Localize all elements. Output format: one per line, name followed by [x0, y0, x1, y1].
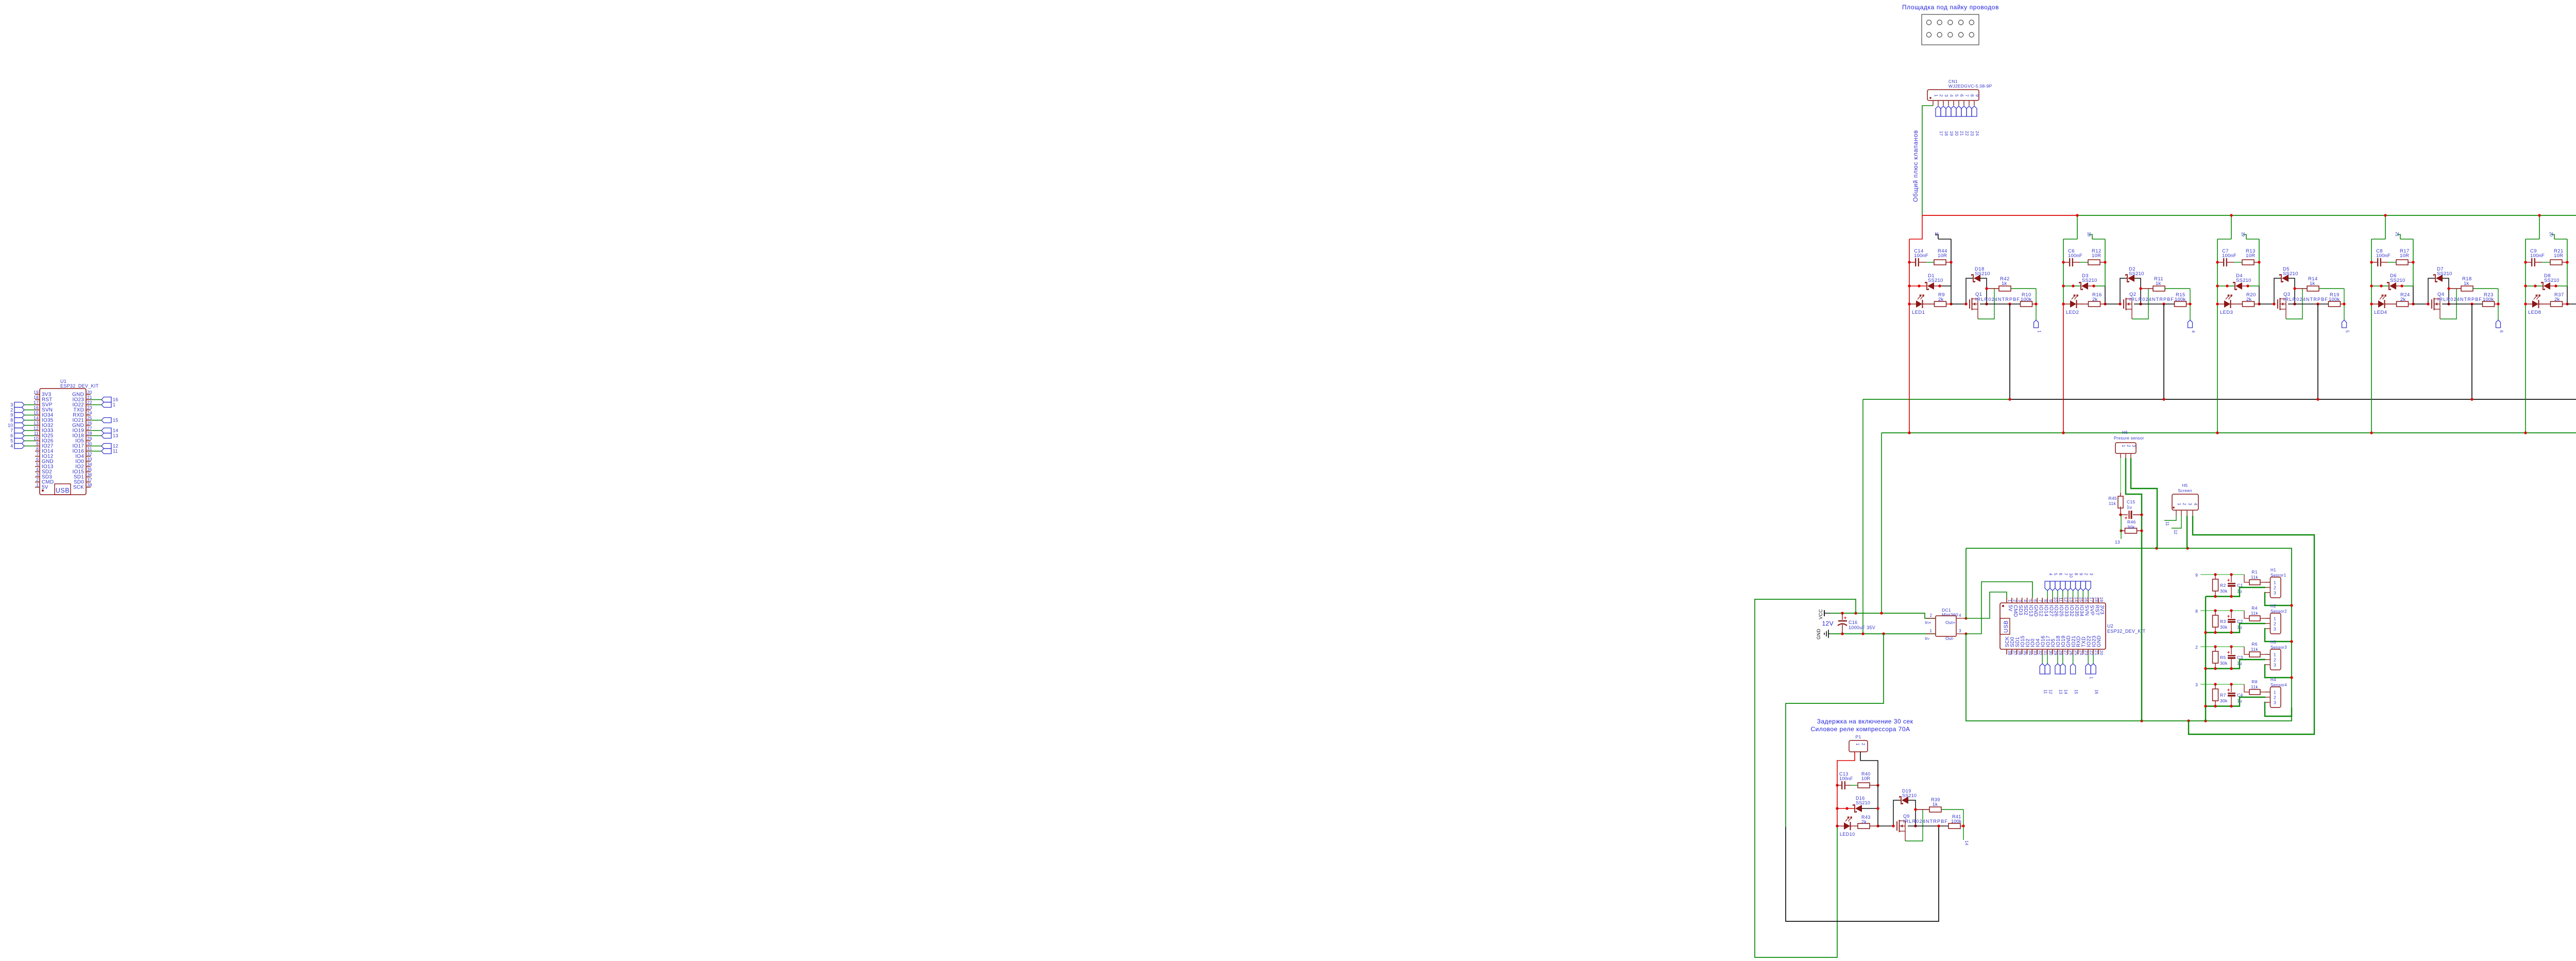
svg-text:100k: 100k: [1951, 819, 1962, 824]
svg-text:1: 1: [2274, 652, 2276, 657]
svg-text:14: 14: [113, 428, 118, 433]
svg-text:SCK: SCK: [73, 485, 84, 491]
svg-text:RST: RST: [2094, 605, 2099, 616]
svg-text:19: 19: [2241, 232, 2245, 237]
svg-text:3: 3: [36, 472, 39, 477]
svg-text:5: 5: [2053, 573, 2058, 576]
svg-text:2: 2: [1930, 613, 1933, 618]
svg-text:8: 8: [2195, 609, 2198, 614]
svg-text:16: 16: [2094, 689, 2098, 694]
svg-text:30k: 30k: [2220, 698, 2228, 703]
svg-text:28: 28: [87, 431, 92, 436]
svg-text:IO14: IO14: [2043, 605, 2048, 617]
svg-text:18: 18: [33, 395, 39, 400]
svg-text:11: 11: [2043, 689, 2047, 694]
svg-text:1: 1: [113, 402, 115, 408]
svg-text:20: 20: [2099, 650, 2104, 655]
svg-text:3V3: 3V3: [2099, 605, 2105, 615]
svg-text:Out-: Out-: [1945, 636, 1954, 641]
svg-text:2: 2: [1939, 94, 1944, 97]
svg-text:ESP32_DEV_KIT: ESP32_DEV_KIT: [60, 383, 99, 389]
svg-text:11k: 11k: [2251, 611, 2258, 616]
svg-text:8: 8: [1970, 94, 1975, 97]
svg-text:30: 30: [87, 441, 92, 446]
svg-text:IRLR024NTRPBF: IRLR024NTRPBF: [2129, 297, 2174, 302]
svg-text:7: 7: [10, 428, 13, 433]
svg-text:2: 2: [2182, 503, 2187, 505]
svg-text:2: 2: [36, 477, 39, 482]
svg-text:10R: 10R: [2400, 253, 2409, 259]
svg-text:1: 1: [2089, 677, 2093, 679]
svg-text:2k: 2k: [2246, 297, 2251, 302]
svg-text:13: 13: [2058, 689, 2063, 694]
svg-text:27: 27: [87, 426, 92, 431]
svg-text:3: 3: [2274, 627, 2276, 632]
svg-text:5: 5: [1954, 94, 1959, 97]
svg-text:6: 6: [10, 433, 13, 439]
svg-text:2k: 2k: [1938, 297, 1943, 302]
svg-text:2k: 2k: [2400, 297, 2405, 302]
svg-text:3: 3: [2131, 445, 2136, 447]
svg-text:100k: 100k: [2021, 297, 2031, 302]
svg-text:15: 15: [113, 418, 118, 423]
svg-text:In+: In+: [1925, 620, 1931, 625]
svg-text:USB: USB: [56, 487, 70, 494]
svg-text:R4: R4: [2251, 605, 2257, 611]
svg-text:29: 29: [87, 436, 92, 441]
svg-text:16: 16: [113, 397, 118, 402]
svg-text:H4: H4: [2270, 678, 2276, 682]
svg-text:12: 12: [2048, 689, 2053, 694]
svg-text:3: 3: [1959, 629, 1961, 633]
svg-text:13: 13: [113, 433, 118, 439]
svg-text:10: 10: [2069, 573, 2073, 578]
svg-text:24: 24: [1975, 131, 1980, 136]
svg-text:12V: 12V: [1822, 620, 1834, 627]
svg-text:11k: 11k: [2251, 575, 2258, 580]
svg-text:20: 20: [87, 390, 92, 395]
svg-text:19: 19: [1949, 131, 1954, 136]
svg-text:2k: 2k: [1861, 819, 1867, 824]
svg-text:37: 37: [87, 477, 92, 482]
svg-text:13: 13: [33, 420, 39, 426]
svg-text:6: 6: [2058, 573, 2063, 576]
svg-text:32: 32: [87, 451, 92, 457]
svg-text:R3: R3: [2220, 619, 2226, 624]
svg-text:H2: H2: [2270, 604, 2276, 609]
svg-text:4: 4: [1959, 613, 1961, 618]
svg-text:20: 20: [1954, 131, 1959, 136]
svg-text:CMD: CMD: [2012, 605, 2018, 617]
svg-text:6: 6: [2499, 330, 2504, 333]
svg-text:3: 3: [2274, 591, 2276, 596]
svg-text:LED8: LED8: [2528, 310, 2541, 315]
svg-text:H6: H6: [2122, 430, 2128, 435]
svg-text:4: 4: [2193, 503, 2198, 505]
svg-text:1: 1: [1934, 94, 1939, 97]
svg-text:9: 9: [1975, 94, 1980, 97]
svg-text:IRLR024NTRPBF: IRLR024NTRPBF: [2283, 297, 2328, 302]
svg-text:100nF: 100nF: [1839, 776, 1853, 781]
svg-text:9: 9: [2195, 572, 2198, 578]
svg-text:12: 12: [33, 426, 39, 431]
svg-text:100nF: 100nF: [2376, 253, 2391, 259]
svg-text:Presure sensor: Presure sensor: [2114, 436, 2144, 441]
svg-text:1: 1: [2274, 580, 2276, 585]
svg-text:21: 21: [2395, 232, 2399, 237]
svg-text:10R: 10R: [2554, 253, 2563, 259]
svg-text:IO34: IO34: [2079, 605, 2084, 617]
svg-text:21: 21: [1959, 131, 1964, 136]
svg-text:2: 2: [10, 408, 13, 413]
svg-text:10: 10: [8, 423, 13, 428]
svg-text:5: 5: [2345, 330, 2350, 333]
svg-text:R5: R5: [2220, 655, 2226, 660]
svg-text:100nF: 100nF: [2068, 253, 2082, 259]
svg-text:IO12: IO12: [2038, 605, 2044, 617]
svg-text:4: 4: [2191, 330, 2196, 333]
svg-text:H3: H3: [2270, 640, 2276, 645]
svg-text:R7: R7: [2220, 693, 2226, 698]
svg-text:7: 7: [1964, 94, 1970, 97]
svg-text:1: 1: [36, 482, 39, 487]
svg-text:USB: USB: [2003, 620, 2009, 633]
svg-text:2: 2: [2274, 621, 2276, 627]
svg-text:R1: R1: [2251, 569, 2257, 575]
svg-text:1k: 1k: [2002, 281, 2007, 286]
svg-text:LED1: LED1: [1912, 310, 1925, 315]
svg-text:6: 6: [1959, 94, 1964, 97]
svg-text:23: 23: [87, 405, 92, 410]
svg-text:R45: R45: [2109, 496, 2117, 501]
svg-text:IRLR024NTRPBF: IRLR024NTRPBF: [1903, 819, 1948, 824]
svg-text:GND: GND: [2096, 635, 2102, 647]
svg-text:LED10: LED10: [1840, 832, 1855, 837]
svg-text:11: 11: [34, 431, 39, 436]
svg-text:19: 19: [2099, 597, 2104, 602]
svg-text:36: 36: [87, 472, 92, 477]
svg-text:Out+: Out+: [1945, 620, 1955, 625]
svg-text:LED3: LED3: [2220, 310, 2233, 315]
svg-text:9: 9: [36, 441, 39, 446]
svg-text:22: 22: [87, 400, 92, 405]
svg-text:33: 33: [87, 457, 92, 462]
svg-text:13: 13: [2115, 539, 2120, 545]
svg-text:34: 34: [87, 462, 92, 467]
svg-text:1k: 1k: [2310, 281, 2315, 286]
svg-text:10: 10: [33, 436, 39, 441]
svg-text:2: 2: [2084, 573, 2089, 576]
svg-text:5V: 5V: [42, 485, 48, 491]
svg-text:38: 38: [87, 482, 92, 487]
svg-text:8: 8: [10, 418, 13, 423]
svg-text:R2: R2: [2220, 583, 2226, 588]
svg-text:14: 14: [33, 415, 39, 420]
svg-text:Силовое реле компрессора 70А: Силовое реле компрессора 70А: [1810, 726, 1910, 733]
svg-text:SS210: SS210: [2236, 278, 2251, 283]
svg-text:15: 15: [33, 410, 39, 415]
svg-text:VCC: VCC: [1818, 609, 1823, 619]
svg-text:10R: 10R: [2092, 253, 2101, 259]
svg-text:17: 17: [1939, 131, 1944, 136]
svg-text:31: 31: [87, 446, 92, 451]
svg-text:30k: 30k: [2220, 625, 2228, 630]
svg-text:1k: 1k: [2156, 281, 2161, 286]
svg-text:30k: 30k: [2220, 661, 2228, 666]
svg-text:C15: C15: [2127, 499, 2136, 504]
svg-text:30k: 30k: [2220, 588, 2228, 594]
svg-text:Площадка под пайку проводов: Площадка под пайку проводов: [1902, 4, 1999, 11]
svg-text:11k: 11k: [2109, 501, 2116, 506]
svg-text:11: 11: [113, 449, 118, 454]
svg-text:9: 9: [2079, 573, 2083, 576]
svg-text:2: 2: [2274, 585, 2276, 591]
svg-text:GND: GND: [1816, 629, 1821, 639]
svg-text:1: 1: [1855, 743, 1860, 746]
svg-text:5V: 5V: [2007, 605, 2013, 612]
svg-text:14: 14: [1964, 840, 1970, 846]
svg-text:5: 5: [36, 462, 39, 467]
svg-text:3: 3: [10, 402, 13, 408]
svg-text:3: 3: [2274, 700, 2276, 705]
svg-text:R6: R6: [2251, 642, 2257, 647]
svg-text:18: 18: [2087, 232, 2091, 237]
svg-text:100nF: 100nF: [2530, 253, 2545, 259]
svg-text:3: 3: [2188, 503, 2192, 505]
svg-text:R46: R46: [2127, 519, 2136, 525]
svg-text:IO26: IO26: [2053, 605, 2059, 617]
svg-text:SVN: SVN: [2084, 605, 2090, 616]
svg-text:4: 4: [2048, 573, 2053, 576]
svg-text:Задержка на включение 30 сек: Задержка на включение 30 сек: [1817, 718, 1913, 725]
svg-text:1k: 1k: [2464, 281, 2469, 286]
svg-text:19: 19: [33, 390, 39, 395]
svg-text:SS210: SS210: [1902, 793, 1917, 798]
svg-text:4: 4: [10, 444, 13, 449]
svg-text:Общий плюс клапанов: Общий плюс клапанов: [1912, 130, 1919, 202]
svg-text:1: 1: [1930, 629, 1933, 633]
svg-text:SD2: SD2: [2023, 605, 2028, 615]
svg-text:SS210: SS210: [1975, 271, 1990, 277]
svg-text:SVP: SVP: [2089, 605, 2094, 616]
svg-text:SD3: SD3: [2018, 605, 2023, 615]
svg-text:35: 35: [87, 467, 92, 472]
svg-text:SS210: SS210: [2390, 278, 2405, 283]
svg-text:2k: 2k: [2554, 297, 2560, 302]
svg-text:SS210: SS210: [2283, 271, 2298, 277]
svg-text:17: 17: [1934, 232, 1939, 237]
svg-text:6: 6: [36, 457, 39, 462]
svg-text:2: 2: [2274, 695, 2276, 700]
svg-text:30k: 30k: [2127, 525, 2135, 530]
svg-text:Q9: Q9: [1903, 814, 1910, 819]
svg-text:1: 1: [2274, 616, 2276, 621]
svg-text:GND: GND: [2033, 605, 2039, 617]
svg-text:10R: 10R: [1938, 253, 1947, 259]
svg-text:2: 2: [2126, 445, 2131, 447]
svg-text:SS210: SS210: [1856, 800, 1870, 805]
svg-text:15: 15: [2074, 689, 2078, 694]
svg-text:SS210: SS210: [2082, 278, 2097, 283]
svg-text:4: 4: [36, 467, 39, 472]
svg-text:11k: 11k: [2251, 684, 2258, 689]
svg-text:2: 2: [2195, 645, 2198, 650]
svg-text:LED4: LED4: [2374, 310, 2387, 315]
svg-text:21: 21: [87, 395, 92, 400]
svg-text:8: 8: [36, 446, 39, 451]
svg-text:SS210: SS210: [2544, 278, 2560, 283]
svg-text:100k: 100k: [2175, 297, 2185, 302]
svg-text:C16: C16: [1849, 620, 1857, 625]
svg-text:IO32: IO32: [2069, 605, 2074, 617]
svg-text:2: 2: [2274, 657, 2276, 663]
svg-text:1000uF 35V: 1000uF 35V: [1849, 625, 1875, 630]
svg-text:1: 1: [2177, 503, 2181, 505]
svg-text:3: 3: [2089, 573, 2093, 576]
svg-text:3: 3: [2195, 682, 2198, 687]
svg-text:22: 22: [1964, 131, 1970, 136]
svg-text:1: 1: [2037, 330, 2042, 333]
svg-text:ESP32_DEV_KIT: ESP32_DEV_KIT: [2107, 629, 2146, 634]
svg-text:P1: P1: [1856, 734, 1861, 739]
svg-text:9: 9: [10, 413, 13, 418]
svg-text:H5: H5: [2182, 483, 2188, 488]
svg-text:1u: 1u: [2127, 504, 2132, 510]
svg-text:IO13: IO13: [2028, 605, 2033, 617]
svg-text:IO35: IO35: [2074, 605, 2079, 617]
svg-text:11k: 11k: [2251, 647, 2258, 652]
svg-text:100k: 100k: [2329, 297, 2340, 302]
svg-text:SS210: SS210: [2437, 271, 2452, 277]
svg-text:26: 26: [87, 420, 92, 426]
svg-text:IRLR024NTRPBF: IRLR024NTRPBF: [2437, 297, 2482, 302]
svg-text:R8: R8: [2251, 679, 2257, 684]
svg-text:8: 8: [2074, 573, 2078, 576]
svg-text:24: 24: [87, 410, 92, 415]
svg-text:10R: 10R: [2246, 253, 2255, 259]
svg-text:SS210: SS210: [1928, 278, 1943, 283]
svg-text:IRLR024NTRPBF: IRLR024NTRPBF: [1975, 297, 2020, 302]
svg-text:IO33: IO33: [2063, 605, 2069, 617]
svg-text:2: 2: [1861, 743, 1866, 746]
svg-text:12: 12: [113, 444, 118, 449]
svg-text:7: 7: [36, 451, 39, 457]
svg-text:U2: U2: [2107, 623, 2113, 629]
svg-text:25: 25: [87, 415, 92, 420]
svg-text:Mini360: Mini360: [1942, 612, 1958, 617]
svg-text:3: 3: [2274, 663, 2276, 668]
svg-text:20: 20: [2549, 232, 2553, 237]
svg-text:In-: In-: [1925, 636, 1930, 641]
svg-text:11: 11: [2165, 521, 2170, 526]
svg-text:5: 5: [10, 439, 13, 444]
svg-text:17: 17: [33, 400, 39, 405]
svg-text:16: 16: [33, 405, 39, 410]
svg-text:LED2: LED2: [2066, 310, 2079, 315]
svg-text:23: 23: [1970, 131, 1975, 136]
svg-text:Screen: Screen: [2178, 488, 2192, 493]
svg-text:1: 1: [2121, 445, 2126, 447]
svg-text:14: 14: [2063, 689, 2068, 694]
svg-text:10R: 10R: [1861, 776, 1870, 781]
svg-text:100nF: 100nF: [2222, 253, 2236, 259]
svg-text:IO27: IO27: [2048, 605, 2054, 617]
svg-text:3: 3: [1944, 94, 1949, 97]
svg-text:IO25: IO25: [2058, 605, 2064, 617]
svg-text:WJ2EDGVC-5.08-9P: WJ2EDGVC-5.08-9P: [1948, 83, 1992, 89]
svg-text:2k: 2k: [2092, 297, 2097, 302]
svg-text:7: 7: [2063, 573, 2068, 576]
svg-text:4: 4: [1949, 94, 1954, 97]
svg-text:1: 1: [2274, 690, 2276, 695]
svg-text:12: 12: [2173, 530, 2178, 534]
svg-text:1k: 1k: [1933, 802, 1938, 807]
svg-text:18: 18: [1944, 131, 1949, 136]
svg-text:SS210: SS210: [2129, 271, 2144, 277]
svg-text:H1: H1: [2270, 568, 2276, 572]
svg-text:100k: 100k: [2483, 297, 2494, 302]
svg-text:100nF: 100nF: [1914, 253, 1928, 259]
